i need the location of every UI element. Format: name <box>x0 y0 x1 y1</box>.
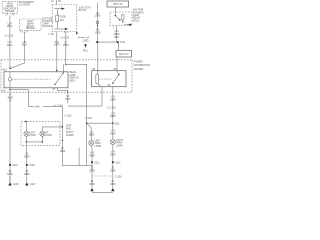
node at pdc edge <box>67 92 68 93</box>
svg-text:18BK: 18BK <box>24 173 30 176</box>
wire L34A horizontal <box>28 105 62 107</box>
svg-text:(DRL): (DRL) <box>69 79 75 82</box>
svg-text:LAMP: LAMP <box>45 134 52 137</box>
wire A0 into PDC <box>97 43 99 71</box>
PDC label <box>134 61 151 71</box>
relay output pin <box>113 26 117 30</box>
relay output riser <box>101 87 103 106</box>
wire A0 main feed <box>97 3 99 43</box>
svg-text:7 ( B2: 7 ( B2 <box>48 33 55 36</box>
battery feed box lower <box>116 50 132 57</box>
fuse 4 <box>56 9 67 29</box>
switch internal dashed link <box>12 78 50 80</box>
wire label Z1 right park lower <box>110 180 116 186</box>
svg-text:18BK: 18BK <box>89 134 95 137</box>
svg-text:DRIVER: DRIVER <box>26 27 35 30</box>
wire label F20 18PK <box>54 41 60 47</box>
relay bus arrow <box>124 24 131 26</box>
wire label right riser top <box>110 96 116 102</box>
junction block label <box>79 7 91 13</box>
junction block dashed box <box>52 5 77 32</box>
svg-text:(PDC): (PDC) <box>133 19 140 22</box>
left park lamp ground wire <box>90 145 93 188</box>
headlamp switch box <box>4 72 68 88</box>
wire batt to relay <box>114 7 116 15</box>
svg-text:18BK: 18BK <box>110 115 116 118</box>
DRL module label <box>42 18 53 29</box>
PDC enclosure dashed <box>1 60 132 92</box>
wire F20 to switch <box>56 32 58 72</box>
right park lamp ground wire <box>112 145 114 188</box>
splice S113 <box>112 161 121 164</box>
wire batt2 to pdc relay <box>116 57 118 71</box>
svg-text:18BK: 18BK <box>110 170 116 173</box>
park lamp riser right from relay pin <box>108 84 113 123</box>
left high beam lamp <box>24 121 36 137</box>
svg-text:S111: S111 <box>114 122 120 125</box>
wire switch left output <box>10 88 28 107</box>
left park lamp drop <box>87 123 92 140</box>
wire label left park <box>89 152 95 158</box>
battery feed box top <box>107 1 129 7</box>
svg-text:18PK: 18PK <box>54 43 60 46</box>
wire left headlamp feed <box>9 90 11 183</box>
svg-text:G107: G107 <box>30 183 36 186</box>
wire label L34 18LG module <box>21 41 27 47</box>
left wire splice S110 <box>9 164 18 167</box>
wire label A0 12RD lower <box>95 29 101 35</box>
bus arrow bottom <box>54 28 68 30</box>
JB right exit arrow <box>76 32 90 40</box>
svg-text:18BK: 18BK <box>89 170 95 173</box>
wire bus to batt box 2 <box>117 43 119 50</box>
wire label right riser <box>110 112 116 118</box>
svg-text:18BK: 18BK <box>110 183 116 186</box>
svg-text:18BK: 18BK <box>110 132 116 135</box>
svg-text:( C106: ( C106 <box>114 176 122 179</box>
main feed horizontal <box>68 105 102 107</box>
svg-text:12RD: 12RD <box>95 31 101 34</box>
ground G103 <box>8 176 19 186</box>
svg-text:BATT A0: BATT A0 <box>119 53 129 56</box>
wire park feed lower drop <box>86 123 88 165</box>
ground G107 <box>25 182 36 186</box>
svg-text:LAMP: LAMP <box>116 144 123 147</box>
instrument cluster label <box>19 1 35 7</box>
right high beam lamp <box>40 127 63 137</box>
instrument cluster pins <box>5 13 15 16</box>
svg-text:S114: S114 <box>120 41 126 44</box>
riser C100 to headlamps <box>61 106 63 127</box>
splice crossbar <box>86 122 120 125</box>
wire label right lamp ground <box>110 151 116 157</box>
DRL relay contacts <box>115 15 124 23</box>
svg-text:18BK: 18BK <box>60 150 66 153</box>
wire L34 from cluster <box>9 15 11 68</box>
svg-text:18LG: 18LG <box>7 44 13 47</box>
wire label L34 18LG <box>7 23 13 29</box>
svg-text:18BK: 18BK <box>63 44 69 47</box>
wire label riser leg <box>60 147 66 153</box>
svg-text:18BK: 18BK <box>110 98 116 101</box>
svg-text:ORG: ORG <box>114 36 120 39</box>
splice bus S114 <box>96 41 126 44</box>
svg-text:DRIVER: DRIVER <box>5 10 14 13</box>
wire label L7 18BK <box>63 41 69 47</box>
wire riser ground leg <box>62 127 92 165</box>
svg-text:L34A: L34A <box>34 105 40 108</box>
svg-text:LAMP: LAMP <box>95 145 102 148</box>
svg-text:( C100: ( C100 <box>64 115 72 118</box>
wire label relay output <box>114 30 120 39</box>
svg-text:S109: S109 <box>29 164 35 167</box>
wire label left 3 rows <box>7 93 13 102</box>
switch contact circle <box>8 72 11 88</box>
headlamp dashed box <box>21 121 60 145</box>
svg-text:G103: G103 <box>13 183 19 186</box>
wire label Z1 left <box>7 170 13 176</box>
headlamp box label <box>66 124 74 137</box>
svg-text:10A: 10A <box>60 19 65 22</box>
headlamp switch label <box>69 71 79 82</box>
bus arrow top <box>54 8 65 10</box>
junction block feed stub <box>51 0 62 5</box>
wire label Z1 left park <box>89 167 95 173</box>
node junction above switch <box>10 68 11 69</box>
svg-text:S110: S110 <box>12 164 18 167</box>
svg-text:( C100: ( C100 <box>85 117 93 120</box>
svg-text:POWER: POWER <box>134 61 143 64</box>
svg-text:CLUSTER: CLUSTER <box>19 4 30 7</box>
splice S112 <box>91 161 100 164</box>
node riser mid <box>62 140 63 141</box>
svg-text:18BK: 18BK <box>7 173 13 176</box>
svg-text:18VT: 18VT <box>65 98 71 101</box>
svg-text:1 ( C218: 1 ( C218 <box>4 35 14 38</box>
splice S100 circle <box>96 21 99 24</box>
instrument cluster dashed box <box>2 2 17 14</box>
svg-text:18BK: 18BK <box>89 155 95 158</box>
wire label L34 18LG lower <box>7 41 13 47</box>
DRL module dashed box <box>20 19 41 30</box>
headlamp ground chain <box>24 152 30 158</box>
svg-text:12RD: 12RD <box>82 39 88 42</box>
headlamp return wires <box>26 136 43 152</box>
svg-text:18LG: 18LG <box>7 25 13 28</box>
wire label L34A <box>34 104 43 108</box>
node F20 at switch <box>56 70 57 71</box>
svg-text:LAMP: LAMP <box>29 134 36 137</box>
ground tie bar <box>92 191 113 193</box>
wire label L4 18VT <box>65 95 71 101</box>
svg-text:DISTRIBUTION: DISTRIBUTION <box>134 64 151 67</box>
node headlamp feed <box>25 121 27 123</box>
svg-text:BATT A0: BATT A0 <box>113 3 123 6</box>
node switch output <box>9 89 10 90</box>
DRL relay label <box>133 9 144 23</box>
svg-text:4 ( C100: 4 ( C100 <box>54 105 64 108</box>
wire relay to bus <box>116 27 118 41</box>
svg-text:1 ( C100: 1 ( C100 <box>60 37 70 40</box>
wire label Z1 headlamp <box>24 170 30 176</box>
wire label right lamp feed <box>110 130 116 136</box>
PDC relay internal dashed <box>99 78 111 80</box>
svg-text:CENTER: CENTER <box>134 68 144 71</box>
PDC relay arm <box>112 68 120 84</box>
splice S109 <box>26 152 35 182</box>
switch contact arm <box>54 72 64 85</box>
wire L7 park feed <box>66 32 87 124</box>
svg-text:S113: S113 <box>115 161 121 164</box>
wire label Z1 right park <box>110 167 116 173</box>
svg-text:B13: B13 <box>3 69 8 72</box>
right park lamp <box>110 123 124 147</box>
svg-text:BLOCK: BLOCK <box>79 9 87 12</box>
PDC relay coil circle <box>93 68 99 84</box>
svg-text:LAMPS: LAMPS <box>66 134 74 137</box>
node riser corner <box>62 126 64 128</box>
wire from DRL module <box>11 32 25 68</box>
svg-text:1 ( C100: 1 ( C100 <box>106 107 116 110</box>
PDC relay box <box>92 71 127 87</box>
ground G103 left park <box>89 180 95 191</box>
DRL relay dashed box <box>110 12 132 26</box>
DRL module pins <box>21 30 28 34</box>
wire switch right output <box>57 88 68 103</box>
svg-text:PDC: PDC <box>83 49 88 52</box>
wire label left park feed <box>89 131 95 137</box>
ground G107 right park <box>110 180 116 191</box>
wire label Z1 left park lower <box>89 180 95 186</box>
off-page A0 reference <box>82 39 88 52</box>
left park lamp <box>89 140 102 148</box>
svg-text:S112: S112 <box>94 161 100 164</box>
connector C106 tie <box>92 176 122 179</box>
svg-text:18LG: 18LG <box>21 43 27 46</box>
svg-text:MODULE: MODULE <box>42 25 53 28</box>
wire switch top exit <box>63 64 65 72</box>
wire label A0 12RD top <box>95 12 101 18</box>
junction block exit pins <box>64 32 67 33</box>
svg-text:12RD: 12RD <box>95 15 101 18</box>
node splice dot <box>97 25 98 26</box>
wire stub tee <box>78 148 80 166</box>
node park feed junction <box>65 64 66 65</box>
svg-text:18BK: 18BK <box>89 183 95 186</box>
